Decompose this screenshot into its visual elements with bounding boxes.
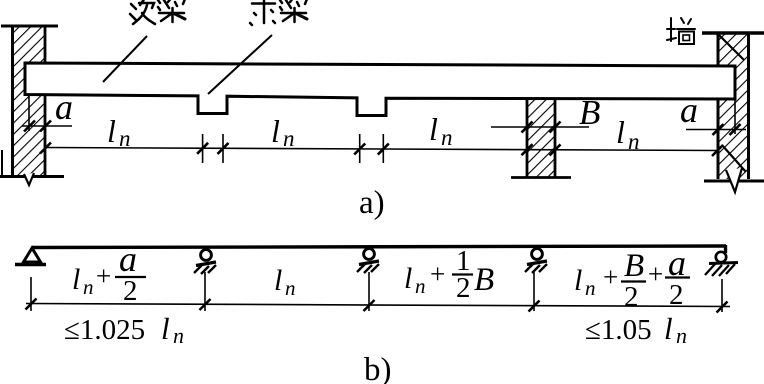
svg-text:l: l bbox=[107, 113, 116, 149]
svg-text:a): a) bbox=[359, 185, 385, 221]
svg-text:n: n bbox=[441, 125, 453, 150]
svg-text:2: 2 bbox=[123, 275, 138, 307]
svg-text:2: 2 bbox=[669, 279, 684, 311]
svg-text:l: l bbox=[271, 113, 280, 149]
svg-text:n: n bbox=[119, 126, 131, 151]
svg-text:l: l bbox=[72, 263, 80, 296]
svg-text:n: n bbox=[628, 129, 640, 154]
svg-text:n: n bbox=[285, 276, 296, 300]
svg-text:n: n bbox=[676, 323, 687, 348]
svg-text:l: l bbox=[274, 264, 282, 297]
svg-text:a: a bbox=[55, 87, 73, 127]
svg-text:+: + bbox=[96, 261, 111, 291]
svg-text:n: n bbox=[283, 126, 295, 151]
svg-text:a: a bbox=[119, 239, 137, 279]
svg-text:+: + bbox=[430, 259, 445, 289]
svg-text:n: n bbox=[83, 275, 94, 299]
svg-text:l: l bbox=[161, 311, 170, 346]
svg-text:B: B bbox=[624, 248, 644, 284]
svg-text:l: l bbox=[429, 111, 438, 147]
svg-text:l: l bbox=[616, 114, 625, 150]
svg-text:+: + bbox=[648, 259, 663, 289]
svg-text:B: B bbox=[474, 262, 494, 298]
svg-text:2: 2 bbox=[624, 281, 639, 313]
svg-text:n: n bbox=[415, 274, 426, 298]
svg-text:l: l bbox=[404, 262, 412, 295]
svg-text:≤1.05: ≤1.05 bbox=[585, 314, 652, 346]
svg-text:a: a bbox=[680, 90, 698, 130]
svg-text:B: B bbox=[579, 93, 600, 132]
svg-text:l: l bbox=[664, 311, 673, 346]
svg-text:2: 2 bbox=[456, 272, 471, 304]
svg-text:+: + bbox=[603, 262, 618, 292]
svg-text:l: l bbox=[574, 264, 582, 297]
svg-text:≤1.025: ≤1.025 bbox=[64, 314, 145, 346]
svg-text:b): b) bbox=[364, 352, 392, 384]
svg-text:n: n bbox=[585, 276, 596, 300]
svg-text:n: n bbox=[173, 323, 184, 348]
